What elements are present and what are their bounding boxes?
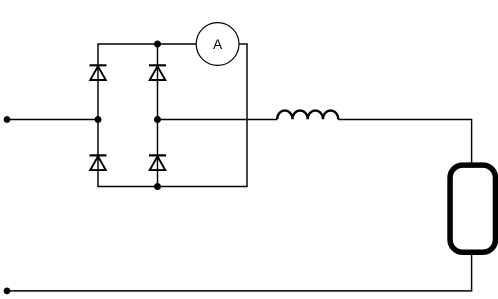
inductor L1 (277, 111, 338, 120)
terminal node: AC input top (4, 116, 11, 123)
diode D3 (bridge upper right) (149, 65, 166, 80)
ammeter A (circle) (196, 23, 239, 66)
terminal node: AC input bottom (4, 288, 11, 295)
wire: bridge right column vertical (157, 44, 159, 187)
junction: left AC node (95, 116, 102, 123)
load (lamp/resistor rounded body) (450, 165, 495, 252)
junction: output node on right column (154, 116, 161, 123)
wire: load bottom lead (471, 255, 473, 292)
wire: inductor to right side (338, 119, 472, 121)
svg-text:A: A (213, 37, 222, 52)
junction: bottom rail / right column (154, 183, 161, 190)
diode D2 (bridge lower left) (90, 155, 107, 170)
wire: bridge top rail to ammeter (97, 43, 196, 45)
wire: right vertical down to load (471, 119, 473, 163)
junction: top rail / right column (154, 41, 161, 48)
diode D4 (bridge lower right) (149, 155, 166, 170)
wire: left AC input lead (7, 119, 98, 121)
wire: ammeter right lead (239, 43, 248, 45)
wire: bottom return line (7, 290, 472, 292)
wire: output node to inductor (158, 119, 278, 121)
wire: ammeter drop to bottom rail (246, 44, 248, 187)
diode D1 (bridge upper left) (90, 65, 107, 80)
wire: bridge bottom rail (97, 186, 247, 188)
wire: bridge left column vertical (97, 44, 99, 187)
